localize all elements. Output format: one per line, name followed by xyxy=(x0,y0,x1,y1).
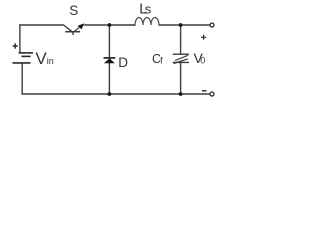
capacitor top plate xyxy=(173,53,189,55)
wire top-left horizontal (source to switch) xyxy=(20,24,64,26)
wire capacitor branch bottom xyxy=(180,62,182,94)
capacitor bottom plate xyxy=(173,61,189,63)
capacitor diagonal stroke lower xyxy=(174,59,188,64)
capacitor diagonal stroke upper xyxy=(175,55,188,60)
svg-text:D: D xyxy=(118,55,128,70)
output terminal top circle xyxy=(210,23,214,27)
wire diode branch bottom xyxy=(108,63,110,94)
diode D cathode bar xyxy=(104,57,116,59)
svg-text:in: in xyxy=(47,56,54,66)
svg-text:S: S xyxy=(69,3,78,18)
coil humps xyxy=(135,18,159,25)
wire capacitor branch top xyxy=(180,25,182,54)
minus sign output xyxy=(202,90,207,92)
diode D triangle xyxy=(104,58,115,63)
battery plus sign xyxy=(13,43,18,48)
base stub xyxy=(72,32,74,35)
svg-text:s: s xyxy=(145,1,152,16)
output terminal bottom circle xyxy=(210,92,214,96)
wire into coil xyxy=(129,24,135,26)
wire diode branch top xyxy=(108,25,110,58)
wire inductor to output terminal xyxy=(159,24,210,26)
emitter arrowhead xyxy=(78,23,85,29)
wire top-right horizontal (switch to output terminal) xyxy=(85,24,136,26)
inductor Ls coil xyxy=(129,18,159,25)
node: junction dot diode bottom xyxy=(108,92,112,96)
transistor S (switch) xyxy=(64,25,83,35)
battery plate long top xyxy=(19,52,33,54)
wire left vertical (top) xyxy=(19,25,21,52)
svg-text:V: V xyxy=(35,49,47,68)
node: junction dot diode top xyxy=(108,23,112,27)
base bar xyxy=(65,31,80,33)
node: junction dot capacitor top xyxy=(179,23,183,27)
battery Vin plates xyxy=(13,53,34,63)
wire bottom rail xyxy=(22,93,210,95)
capacitor Cf plates xyxy=(173,54,189,63)
wire left vertical (bottom) xyxy=(21,63,23,94)
battery plate short middle xyxy=(22,55,31,57)
collector diagonal xyxy=(64,25,72,31)
svg-text:0: 0 xyxy=(200,56,205,66)
plus sign output xyxy=(201,35,206,40)
node: junction dot capacitor bottom xyxy=(179,92,183,96)
battery plate long bottom xyxy=(13,62,31,64)
emitter line xyxy=(75,25,83,31)
